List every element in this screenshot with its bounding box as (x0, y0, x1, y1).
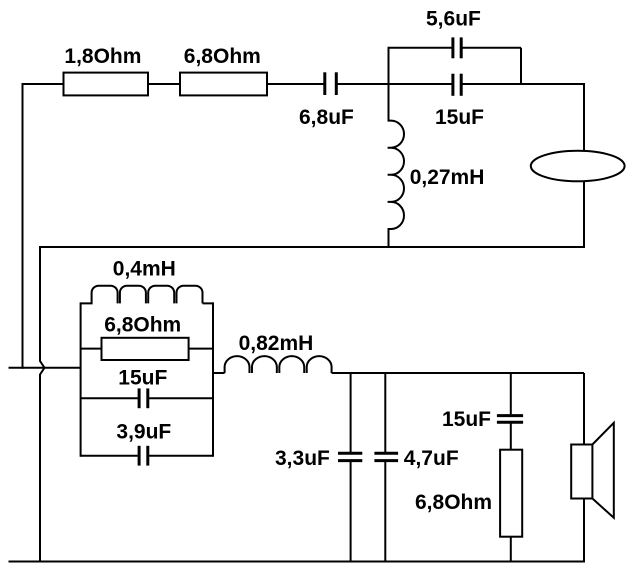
resistor R3 6,8Ohm (102, 338, 189, 360)
wire: C8 branch upper (510, 373, 512, 414)
wire: bottom rail (9, 561, 585, 563)
wire: top branch right drop (520, 48, 522, 84)
wire: C5 branch right (149, 455, 213, 457)
inductor L1 0,27mH vertical coil (388, 84, 404, 248)
wire: top rail to R1 (22, 83, 65, 85)
wire: C7 branch lower (384, 462, 386, 562)
capacitor C3 15uF on main rail (453, 74, 461, 96)
capacitor C6 3,3uF (338, 453, 362, 460)
inductor L3 0,82mH (225, 356, 332, 373)
capacitor C8 15uF (497, 416, 523, 423)
capacitor C2 5,6uF (453, 37, 461, 58)
resistor R4 6,8Ohm vertical (500, 450, 522, 537)
capacitor C4 15uF (139, 388, 148, 408)
speaker SP2 magnet rectangle (571, 445, 592, 499)
wire: R4 to bottom rail (510, 537, 512, 562)
wire: C6 branch lower (350, 462, 352, 562)
wire: C5 branch left on block bottom edge (81, 455, 138, 457)
wire: top branch right (462, 47, 521, 49)
wire: parallel block right edge (212, 302, 214, 456)
wire: right rail down to tweeter (583, 83, 585, 166)
wire: top circuit bottom rail (40, 246, 584, 248)
svg-text:3,3uF: 3,3uF (275, 447, 330, 470)
wire: R2 to C1 (267, 83, 324, 85)
wire: left input rail (22, 83, 24, 369)
speaker SP2 cone (592, 423, 613, 518)
wire: C4 branch right (149, 397, 213, 399)
svg-text:6,8uF: 6,8uF (299, 106, 354, 129)
wire: C8 to R4 (510, 424, 512, 451)
resistor R1 1,8Ohm (64, 73, 149, 96)
svg-text:6,8Ohm: 6,8Ohm (104, 313, 181, 336)
inductor L2 0,4mH on block top edge (81, 286, 213, 304)
svg-text:0,27mH: 0,27mH (410, 166, 485, 189)
wire: C3 to right corner (462, 83, 584, 85)
wire: top branch left (388, 47, 452, 49)
node A: junction riser to top branch (388, 48, 390, 85)
tweeter SP1 (531, 151, 625, 182)
wire: C4 branch left (81, 397, 138, 399)
svg-text:0,4mH: 0,4mH (113, 258, 176, 281)
wire: return rail with crossover hop (40, 246, 45, 562)
svg-text:15uF: 15uF (435, 106, 484, 129)
svg-text:15uF: 15uF (442, 408, 491, 431)
wire: speaker branch upper (583, 373, 585, 446)
svg-text:5,6uF: 5,6uF (426, 7, 481, 30)
svg-text:15uF: 15uF (118, 366, 167, 389)
wire: block to L3 (213, 372, 225, 374)
wire: C1 to C3 through node A (338, 83, 452, 85)
wire: parallel block left edge (80, 302, 82, 456)
wire: C6 branch upper (350, 373, 352, 452)
capacitor C1 6,8uF (325, 72, 337, 95)
wire: R3 branch left (81, 348, 102, 350)
wire: tweeter down to bottom rail (583, 166, 585, 248)
resistor R2 6,8Ohm (180, 73, 267, 96)
wire: L3 to speaker rail (332, 372, 584, 374)
wire: speaker branch lower (583, 497, 585, 563)
svg-text:0,82mH: 0,82mH (239, 332, 314, 355)
svg-text:3,9uF: 3,9uF (116, 420, 171, 443)
svg-text:4,7uF: 4,7uF (404, 447, 459, 470)
capacitor C5 3,9uF (139, 446, 148, 466)
capacitor C7 4,7uF (374, 453, 398, 460)
svg-text:6,8Ohm: 6,8Ohm (184, 45, 261, 68)
wire: R3 branch right (189, 348, 213, 350)
svg-text:6,8Ohm: 6,8Ohm (415, 491, 492, 514)
wire: C7 branch upper (384, 373, 386, 452)
wire: R1 to R2 (148, 83, 180, 85)
svg-text:1,8Ohm: 1,8Ohm (64, 45, 141, 68)
wire: bottom input line (9, 367, 81, 369)
